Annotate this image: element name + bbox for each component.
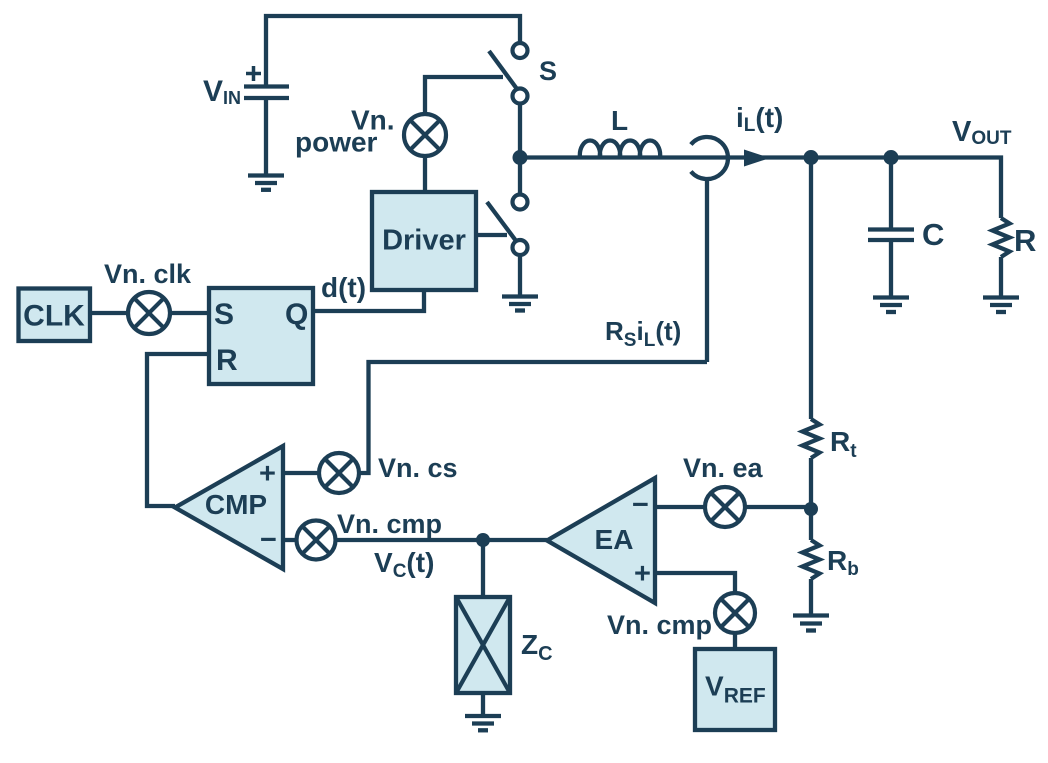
box SR latch U2 — [209, 288, 313, 384]
inductor L — [580, 141, 660, 158]
svg-text:L: L — [611, 105, 628, 136]
svg-text:+: + — [259, 458, 276, 490]
impedance ZC block — [456, 597, 510, 693]
noise source Vn.clk — [128, 292, 170, 334]
switch S2 top contact circle — [513, 195, 528, 210]
wire VC to ZC — [481, 540, 485, 597]
svg-text:Vn. cmp: Vn. cmp — [607, 610, 712, 640]
svg-text:R: R — [1014, 223, 1036, 258]
svg-text:+: + — [634, 558, 651, 590]
ground VIN — [248, 176, 284, 190]
box Driver U1 — [372, 192, 476, 290]
svg-text:−: − — [260, 524, 277, 556]
ground C — [873, 298, 909, 313]
wire VIN bottom to ground — [264, 98, 268, 175]
wire Vn.cmp2 to VREF — [733, 633, 737, 649]
wire current sense feedback RSiL — [357, 362, 707, 473]
source VIN plates — [244, 87, 289, 99]
source VREF box — [695, 649, 775, 730]
op-amp CMP comparator — [175, 446, 283, 569]
wire C bottom — [889, 240, 893, 296]
svg-text:RSiL(t): RSiL(t) — [605, 316, 681, 351]
wire switch S2 to ground — [518, 255, 522, 296]
wire latch R input from CMP — [147, 354, 209, 506]
switch S2 blade — [487, 202, 518, 244]
svg-text:iL(t): iL(t) — [736, 102, 783, 136]
ground ZC — [465, 716, 501, 730]
svg-text:Driver: Driver — [382, 225, 466, 257]
wire switch S to node SW — [518, 104, 522, 195]
ground Rb — [793, 616, 829, 631]
svg-text:R: R — [216, 344, 238, 377]
node SW junction dot — [513, 150, 528, 165]
wire CMP minus input — [283, 538, 297, 542]
svg-text:CLK: CLK — [23, 300, 85, 333]
wire ZC to ground — [481, 693, 485, 715]
arrow iL(t) — [744, 150, 770, 167]
svg-text:power: power — [295, 127, 378, 158]
noise source Vn.cmp2 — [715, 593, 755, 633]
resistor R load zigzag — [993, 218, 1010, 257]
svg-text:Q: Q — [285, 298, 308, 331]
svg-text:S: S — [214, 298, 234, 331]
switch S blade — [489, 51, 517, 89]
capacitor C plates — [868, 230, 914, 241]
wire EA minus input — [655, 505, 705, 509]
wire R bottom — [999, 257, 1003, 296]
box CLK — [19, 289, 91, 342]
op-amp EA error amplifier — [547, 478, 655, 603]
wire Vn.clk to latch S input — [170, 311, 209, 315]
wire Rt to feedback node — [809, 458, 813, 540]
resistor Rt zigzag — [803, 419, 820, 458]
plus sign VIN polarity — [246, 66, 261, 81]
wire Rb to ground — [809, 579, 813, 615]
noise source Vn.cs — [319, 453, 359, 493]
wire current sensor tap down — [705, 179, 709, 362]
resistor Rb zigzag — [803, 540, 820, 579]
wire Q output d(t) to Driver — [313, 290, 424, 311]
svg-text:C: C — [922, 217, 944, 252]
noise source Vn.power — [404, 114, 446, 156]
wire Vn.power to Driver — [423, 156, 427, 192]
svg-text:Vn. cmp: Vn. cmp — [337, 509, 442, 539]
noise source Vn.cmp — [297, 521, 336, 560]
svg-text:S: S — [539, 56, 557, 86]
wire CMP plus input — [283, 471, 319, 475]
svg-text:Vn. ea: Vn. ea — [683, 453, 764, 483]
switch S bottom contact circle — [513, 89, 528, 104]
svg-text:−: − — [632, 489, 649, 521]
ground switch S2 — [502, 297, 538, 311]
node VOUT-B junction dot — [884, 150, 899, 165]
svg-text:EA: EA — [595, 524, 634, 555]
wire output rail — [520, 158, 1001, 219]
node VC junction dot — [476, 533, 490, 547]
noise source Vn.ea — [705, 487, 745, 527]
switch S2 bottom contact circle — [513, 240, 528, 255]
svg-text:CMP: CMP — [205, 489, 267, 520]
svg-text:d(t): d(t) — [321, 272, 366, 303]
wire VIN top rail to switch S — [266, 16, 520, 88]
switch S top contact circle — [513, 43, 528, 58]
wire output tap down to Rt — [809, 158, 813, 420]
svg-text:Vn. cs: Vn. cs — [378, 453, 458, 483]
wire EA plus input — [655, 573, 735, 593]
wire C top — [889, 158, 893, 230]
wire CLK to Vn.clk — [90, 311, 128, 315]
wire switch drive from Vn.power — [425, 77, 503, 114]
node FB junction dot — [804, 502, 818, 516]
current sensor on inductor output — [691, 137, 728, 179]
svg-text:Vn. clk: Vn. clk — [104, 259, 192, 289]
ground R — [983, 298, 1019, 313]
wire Vn.ea to FB node — [745, 505, 811, 509]
node VOUT-A junction dot — [804, 150, 819, 165]
wire Vc node to EA output — [336, 538, 548, 542]
wire Driver to switch S2 — [476, 233, 507, 237]
